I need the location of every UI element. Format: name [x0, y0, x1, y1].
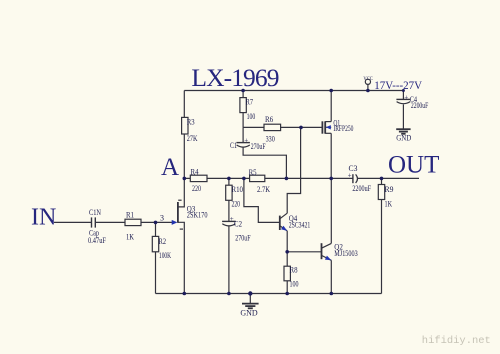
svg-text:2200uF: 2200uF: [411, 101, 429, 110]
svg-text:R9: R9: [385, 185, 394, 194]
svg-text:3: 3: [160, 214, 164, 223]
svg-text:C2: C2: [234, 220, 242, 229]
svg-text:R2: R2: [159, 237, 166, 246]
svg-text:GND: GND: [240, 309, 258, 318]
svg-text:2SK170: 2SK170: [187, 211, 208, 220]
svg-text:+: +: [348, 171, 352, 179]
svg-text:IN: IN: [31, 205, 56, 231]
svg-text:1K: 1K: [385, 199, 393, 208]
svg-text:27K: 27K: [187, 134, 198, 143]
svg-text:100: 100: [247, 112, 256, 121]
svg-text:2200uF: 2200uF: [352, 184, 371, 193]
svg-text:R3: R3: [187, 117, 195, 126]
svg-text:+: +: [230, 215, 234, 223]
svg-text:R4: R4: [191, 168, 199, 177]
svg-text:R5: R5: [249, 168, 257, 177]
svg-text:100K: 100K: [159, 251, 171, 260]
svg-text:270uF: 270uF: [235, 234, 251, 243]
svg-text:C1N: C1N: [89, 208, 101, 217]
svg-text:A: A: [161, 154, 179, 181]
svg-text:GND: GND: [396, 133, 411, 142]
svg-text:IRFP250: IRFP250: [333, 124, 353, 133]
svg-text:hifidiy.net: hifidiy.net: [422, 335, 491, 347]
svg-text:330: 330: [266, 134, 275, 143]
svg-text:R8: R8: [290, 266, 298, 275]
svg-text:LX-1969: LX-1969: [191, 63, 278, 92]
svg-text:270uF: 270uF: [251, 142, 266, 151]
svg-text:0.47uF: 0.47uF: [88, 236, 106, 245]
svg-text:100: 100: [290, 279, 299, 288]
svg-text:OUT: OUT: [388, 152, 439, 179]
svg-text:220: 220: [192, 184, 201, 193]
svg-text:17V---27V: 17V---27V: [374, 78, 422, 92]
svg-text:VCC: VCC: [363, 76, 373, 82]
svg-text:2SC3421: 2SC3421: [289, 220, 311, 229]
svg-text:R10: R10: [232, 185, 244, 194]
svg-text:+: +: [244, 137, 248, 145]
svg-text:R1: R1: [126, 211, 134, 220]
svg-text:1K: 1K: [126, 233, 134, 242]
svg-text:C1: C1: [230, 141, 237, 150]
svg-text:+: +: [404, 93, 408, 101]
svg-text:2.7K: 2.7K: [257, 185, 270, 194]
svg-text:220: 220: [232, 200, 241, 209]
svg-text:R7: R7: [246, 98, 253, 107]
svg-text:MJ15003: MJ15003: [334, 249, 357, 258]
svg-text:R6: R6: [265, 115, 273, 124]
